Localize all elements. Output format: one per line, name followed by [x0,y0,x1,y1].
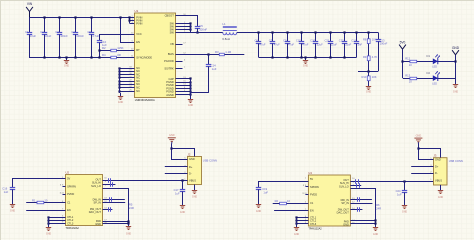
svg-text:0R: 0R [117,53,121,57]
svg-text:GND: GND [10,210,16,213]
svg-text:1uF: 1uF [263,190,268,194]
wire U2 dwout [103,209,113,211]
svg-text:LED: LED [432,82,437,85]
wire U2 spin [103,202,126,204]
svg-text:GND: GND [118,101,124,104]
svg-text:10: 10 [409,63,412,67]
svg-text:LMR36015ADDA: LMR36015ADDA [135,98,155,102]
U4 left pin names [310,177,319,226]
svg-text:C1: C1 [67,201,71,205]
svg-text:R5: R5 [129,203,133,207]
inductor L1 [223,27,237,35]
svg-text:D2: D2 [427,71,431,75]
svg-text:R1: R1 [32,198,36,202]
wire led left rail [402,49,404,78]
svg-text:J2: J2 [188,152,191,156]
svg-text:LED: LED [432,66,437,69]
wire U4 5V pin [259,182,309,188]
svg-text:GND: GND [189,157,195,161]
svg-text:PVDD: PVDD [67,192,74,196]
svg-text:1uF: 1uF [212,67,217,71]
svg-text:C15: C15 [296,39,301,43]
wire U4 gndpin [350,223,375,225]
wire led bottom branch [403,78,455,80]
svg-text:22uF: 22uF [317,43,323,47]
wire bias cap return [191,92,209,94]
U1 left pin names [136,16,152,60]
resistor R9 fb mid [367,56,370,61]
svg-text:R3: R3 [215,50,219,54]
wire U4 out2 stub [350,185,361,187]
ground C24 [402,205,407,208]
U2 right pin names [89,177,102,226]
svg-text:47uF: 47uF [259,43,265,47]
U4 right pin names [337,178,350,227]
svg-text:10: 10 [287,199,290,203]
capacitor C2 [42,18,47,58]
svg-text:GND: GND [64,65,70,68]
wire U2 5V pin [12,178,66,180]
svg-text:R6: R6 [376,203,380,207]
ground output caps [303,57,308,63]
capacitor C3 [57,18,62,58]
svg-text:C9: C9 [283,39,287,43]
svg-text:SLN_LO: SLN_LO [339,185,349,189]
svg-text:10uF: 10uF [30,34,36,38]
svg-text:AGND: AGND [166,93,174,97]
svg-text:C8: C8 [87,30,91,34]
svg-text:GND: GND [169,134,175,137]
capacitor C5 cboot [195,27,200,33]
svg-text:SLN_HI: SLN_HI [340,181,349,185]
svg-text:CBOOT: CBOOT [165,13,175,17]
wire U4 EN pin [274,210,308,212]
svg-text:GND: GND [126,232,132,235]
capacitor C14 bias decoupling [206,54,211,92]
svg-text:J3: J3 [434,154,437,158]
capacitor C22 output [342,32,347,57]
wire VIN top rail [29,17,136,19]
svg-text:5V: 5V [67,177,70,181]
svg-text:22uF: 22uF [345,43,351,47]
svg-text:GND: GND [366,91,372,94]
svg-text:R4: R4 [102,53,106,57]
U1 NC pins and gnd bus [118,66,140,93]
svg-text:C2: C2 [40,30,44,34]
wire J3 shield top [419,149,441,158]
svg-text:BIAS: BIAS [168,52,174,56]
svg-text:GND: GND [180,211,186,214]
svg-text:D+: D+ [189,165,193,169]
wire U2 gndpin [103,223,129,225]
wire EN tie to VIN [121,18,136,43]
svg-text:GND: GND [192,195,198,198]
svg-text:NC: NC [136,90,140,93]
U4 stub pins 8 11 [302,185,308,195]
svg-text:C24: C24 [396,189,401,193]
svg-text:DAC_OUT: DAC_OUT [89,210,102,214]
svg-text:TPA6132A2: TPA6132A2 [66,227,80,230]
resistor R13 [410,77,417,80]
svg-text:C16: C16 [2,186,7,190]
svg-text:C3: C3 [55,30,59,34]
svg-text:RT: RT [136,48,140,52]
wire U2 pad [103,221,129,223]
svg-text:GND: GND [416,135,422,138]
svg-text:C22: C22 [339,39,344,43]
svg-text:C13: C13 [380,38,385,42]
ground J3 top [414,138,422,144]
svg-text:GND: GND [373,233,379,236]
svg-text:R10: R10 [361,75,366,79]
wire J3 gnd loop [419,144,434,160]
svg-text:VBUS: VBUS [435,178,442,182]
ground U2 ctl [46,227,51,231]
wire FB stub [176,44,183,46]
svg-text:10K: 10K [372,75,377,79]
svg-text:R12: R12 [405,57,410,61]
capacitor C16 U2 supply [10,179,15,204]
capacitor C17 vbus [180,181,185,206]
wire U2 ctl bus [47,216,65,227]
svg-text:USB CONN: USB CONN [203,158,217,162]
svg-text:C20: C20 [310,39,315,43]
regulator U1 body [135,13,176,98]
resistor R1 U2 [37,201,44,204]
svg-text:D1: D1 [427,54,431,58]
svg-text:4.7K: 4.7K [372,55,378,59]
svg-text:U4: U4 [308,171,312,175]
wire J2 D- stub [165,173,188,175]
svg-text:C1: C1 [310,201,314,205]
svg-text:PVIN: PVIN [136,22,142,26]
wire input gnd bottom rail [29,57,136,59]
resistor R2 RT set [111,49,117,52]
power flag VIN [26,7,33,18]
ground feedback divider [366,87,371,90]
wire VOUT bottom rail [259,57,357,59]
svg-text:SP_IN: SP_IN [94,201,102,205]
wire BIAS [176,54,209,56]
capacitor C10 VCC decoupling [97,41,102,58]
svg-text:GND: GND [188,104,194,107]
svg-text:R9: R9 [363,55,367,59]
wire VOUT rail [237,32,378,34]
wire PGOOD stub [176,61,183,63]
resistor R8 fb top [368,32,370,38]
svg-text:100nF: 100nF [199,28,207,32]
wire SW bus [176,22,223,32]
capacitor C23 out coupling [356,179,359,183]
svg-text:VBUS: VBUS [189,179,196,183]
svg-text:1uF: 1uF [175,192,180,196]
wire J3 D+ stub [411,166,433,168]
J2 pin names [184,157,196,182]
ground C16 [10,204,15,207]
capacitor C21 output [328,32,333,57]
svg-text:PGOOD: PGOOD [164,59,174,63]
ground U4 ctl [294,228,299,231]
wire U4 dwout [350,209,362,211]
wire U4 spin [350,203,372,205]
wire J2 shield top [172,149,195,157]
wire U4 out to usb vbus [350,181,433,183]
resistor R3 bias feed [209,54,244,56]
resistor R10 fb bottom [367,76,370,81]
svg-text:100nF: 100nF [76,34,84,38]
wire U4 pad [350,220,375,222]
wire PVIN pin2 pin3 tie [129,18,131,24]
junction U4 vbus [403,180,405,182]
svg-text:4.7uF: 4.7uF [92,34,99,38]
svg-text:1nF: 1nF [358,43,363,47]
U2 pin numbers [62,177,65,224]
svg-text:C7: C7 [269,39,273,43]
U4 right pin numbers [352,178,355,225]
svg-text:5V0: 5V0 [400,40,406,44]
capacitor C19 U4 supply [256,188,261,205]
ground J2 top [168,138,176,144]
wire J2 shield [194,185,196,191]
wire U2 EN pin [26,210,65,212]
svg-text:24R: 24R [129,206,134,210]
svg-text:R2: R2 [102,46,106,50]
svg-text:SP_IN: SP_IN [341,201,349,205]
ground U1 pgnd [188,97,193,103]
amplifier U4 body [308,175,350,226]
net flag GND led [452,50,459,61]
svg-text:EN: EN [310,209,314,213]
wire J2 D+ stub [165,166,188,168]
svg-text:SPKRN: SPKRN [310,185,319,189]
svg-text:1.1R: 1.1R [225,50,231,54]
svg-text:OUT: OUT [96,177,102,181]
svg-text:GND: GND [402,211,408,214]
wire U1 pgnd bus [176,77,192,97]
wire U2 out [103,180,111,182]
svg-text:SPKRN: SPKRN [67,184,76,188]
svg-text:FB: FB [170,42,174,46]
resistor R12 [410,60,417,63]
U2 right pin numbers [104,178,107,225]
ground U1 left pins [118,93,123,100]
connector J2 body [188,157,202,185]
svg-text:GND: GND [256,210,262,213]
wire J2 vbus [111,180,188,182]
svg-text:OUT: OUT [343,178,349,182]
node FB [358,71,378,73]
svg-text:47uF: 47uF [302,43,308,47]
svg-text:1uF: 1uF [4,190,9,194]
capacitor C24 vbus right [402,181,407,205]
wire VCC to decoupling [100,35,136,41]
ground led rail [453,84,458,87]
svg-text:DW_IN: DW_IN [93,197,101,201]
wire J2 gnd loop [172,144,188,160]
svg-text:D-: D- [435,171,438,175]
ground J2 shield [192,190,197,193]
svg-text:100nF: 100nF [60,34,68,38]
svg-text:SS/TRK: SS/TRK [164,66,174,70]
svg-text:C11: C11 [351,39,356,43]
svg-text:10: 10 [409,80,412,84]
wire U2 dwin [103,199,125,201]
capacitor C4 [73,18,78,58]
svg-text:GND: GND [46,233,52,236]
wire U2 out2 stub [103,184,116,186]
svg-text:R13: R13 [405,73,410,77]
capacitor C11 output [354,32,359,57]
svg-text:SLN_HI: SLN_HI [92,181,101,185]
svg-text:VCC: VCC [136,32,142,36]
U4 pin numbers [305,178,308,225]
svg-text:GND: GND [95,222,101,226]
led D1 [433,54,440,64]
U1 right pin numbers [183,14,186,92]
led D2 [433,71,440,81]
capacitor C8 [89,18,94,58]
ground input caps [64,57,69,63]
svg-text:GND: GND [453,90,459,93]
J3 pin names [430,158,442,183]
wire RT to R2 [100,50,136,52]
svg-text:C21: C21 [324,39,329,43]
svg-text:GND: GND [438,196,444,199]
svg-text:C6: C6 [254,39,258,43]
svg-text:22uF: 22uF [331,43,337,47]
wire U2 gnd bus corner [103,189,129,227]
svg-text:6.8uH: 6.8uH [222,37,229,41]
svg-text:1uF: 1uF [397,192,402,196]
svg-text:R2: R2 [275,199,279,203]
svg-text:47uF: 47uF [288,43,294,47]
capacitor C13 feedforward [376,32,381,71]
ground C17 [180,206,185,209]
svg-text:CTL3: CTL3 [67,221,74,225]
capacitor C15 output [299,32,304,57]
capacitor C9 output [285,32,290,57]
amplifier U2 body [66,175,103,226]
wire U2 C1 pin [26,202,65,204]
svg-text:C4: C4 [71,30,75,34]
wire led top branch [403,61,455,63]
wire led right rail [455,55,457,85]
svg-text:SW: SW [170,30,175,34]
svg-text:GND: GND [343,222,349,226]
wire U4 C1 pin [273,203,309,205]
svg-text:TPA6132A2: TPA6132A2 [308,228,322,231]
svg-text:SLN_LO: SLN_LO [91,184,101,188]
svg-text:CTL3: CTL3 [310,222,317,226]
wire J3 D- stub [411,173,433,175]
svg-text:GND: GND [303,65,309,68]
U2 left pin names [67,177,76,226]
svg-text:10: 10 [44,198,47,202]
wire J3 shield [440,185,442,191]
svg-text:C1: C1 [25,30,29,34]
ground U4 bus [373,227,378,230]
svg-text:D-: D- [189,172,192,176]
power flag 5V0 [399,45,406,62]
svg-text:47uF: 47uF [274,43,280,47]
U1 left pin numbers [131,16,134,58]
svg-text:GND: GND [294,233,300,236]
svg-text:C17: C17 [174,188,179,192]
svg-text:SYNC/MODE: SYNC/MODE [136,55,152,59]
svg-text:24R: 24R [376,207,381,211]
ground C19 [256,205,261,208]
capacitor C20 output [313,32,318,57]
wire SSTRK stub [176,68,183,70]
wire U4 dwin [350,199,372,201]
connector J3 body [434,158,448,185]
svg-text:R8: R8 [363,38,367,42]
svg-text:U1: U1 [135,9,139,13]
svg-text:EN: EN [67,208,71,212]
svg-text:100nF: 100nF [380,42,388,46]
capacitor C18 out coupling [109,178,111,182]
svg-text:PVDD: PVDD [310,193,317,197]
capacitor C6 output [256,32,261,57]
wire CBOOT [176,16,198,27]
svg-text:115K: 115K [117,46,123,50]
ground J3 shield [438,191,443,194]
svg-text:10uF: 10uF [45,34,51,38]
U1 right pin names [164,13,174,96]
wire U4 ctl bus [295,216,308,227]
svg-text:GND: GND [452,46,460,50]
resistor R2b U4 [280,202,287,205]
ground U2 bus [126,227,131,230]
resistor R4 sync mode [111,56,117,59]
wire U4 gnd bus corner [351,189,376,228]
capacitor C7 output [270,32,275,57]
svg-text:VIN: VIN [27,2,33,6]
svg-text:5V: 5V [310,177,313,181]
U2 stub pins 8 11 [59,185,65,195]
svg-text:L1: L1 [222,22,226,26]
svg-text:D+: D+ [435,165,439,169]
svg-text:C19: C19 [262,187,267,191]
svg-text:U2: U2 [66,171,70,175]
svg-text:GND: GND [435,158,441,162]
svg-text:DAC_OUT: DAC_OUT [337,211,350,215]
svg-text:DW_IN: DW_IN [341,198,349,202]
svg-text:EN: EN [136,40,140,44]
capacitor C1 [27,18,32,58]
svg-text:USB CONN: USB CONN [449,159,463,163]
